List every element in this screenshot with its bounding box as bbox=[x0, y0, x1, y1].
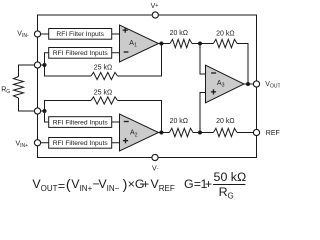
RFI filter box 4 bbox=[49, 138, 112, 149]
wire node FB2 bbox=[193, 132, 213, 134]
wire external RG to pin2 bbox=[19, 98, 35, 111]
junction dot A3 output bbox=[246, 82, 250, 86]
svg-text:+: + bbox=[205, 177, 212, 191]
RFI filter box 1 bbox=[49, 29, 112, 40]
wire node G2 up to 25k row 2 bbox=[45, 101, 92, 112]
svg-text:REF: REF bbox=[266, 130, 280, 137]
wire VIN+ to RFI box 4 bbox=[41, 142, 49, 144]
junction dot A2 output bbox=[159, 131, 163, 135]
svg-text:50 kΩ: 50 kΩ bbox=[214, 170, 247, 184]
svg-text:=: = bbox=[58, 179, 65, 193]
wire RFI box4 to A2 + input bbox=[112, 142, 120, 144]
svg-text:RFI Filtered Inputs: RFI Filtered Inputs bbox=[53, 119, 109, 126]
package outline box bbox=[38, 15, 257, 158]
svg-text:20 kΩ: 20 kΩ bbox=[170, 30, 188, 37]
RFI filter box 3 bbox=[49, 117, 112, 128]
terminal V+ bbox=[152, 12, 158, 18]
junction dot node FB1 bbox=[198, 42, 202, 46]
svg-text:25 kΩ: 25 kΩ bbox=[94, 90, 112, 97]
wire 20k (4) to REF terminal bbox=[237, 132, 254, 134]
svg-text:G: G bbox=[184, 177, 194, 191]
op-amp A3 bbox=[206, 65, 245, 103]
formula VOUT equation bbox=[32, 177, 174, 193]
terminal REF bbox=[253, 129, 259, 135]
terminal VIN+ bbox=[34, 140, 40, 146]
svg-text:20 kΩ: 20 kΩ bbox=[216, 30, 234, 37]
op-amp A1 bbox=[120, 25, 159, 62]
formula gain equation bbox=[184, 170, 246, 201]
svg-text:VIN-: VIN- bbox=[17, 30, 29, 39]
wire node FB1 bbox=[192, 43, 213, 45]
wire RG pin1 to external RG bbox=[19, 65, 35, 77]
wire RFI box2 left hook to node G1 bbox=[45, 53, 49, 65]
svg-text:20 kΩ: 20 kΩ bbox=[216, 118, 234, 125]
junction dot node FB2 bbox=[198, 131, 202, 135]
svg-text:RG: RG bbox=[1, 87, 10, 96]
resistor 20k (3) bbox=[169, 128, 193, 136]
RFI filter box 2 bbox=[49, 48, 112, 59]
wire node FB1 down to A3 - input bbox=[200, 44, 206, 75]
svg-text:(: ( bbox=[66, 177, 71, 193]
wire VIN- to RFI box 1 bbox=[41, 33, 49, 35]
svg-text:VIN+: VIN+ bbox=[71, 177, 92, 193]
op-amp A2 bbox=[120, 114, 159, 151]
wire 20k (2) down to A3 output bbox=[237, 44, 248, 85]
terminal RG pin 1 bbox=[34, 62, 40, 68]
wire node G1 down to 25k row bbox=[45, 65, 92, 76]
wire RFI box2 to A1 - input bbox=[112, 52, 120, 54]
wire RFI box1 to A1 + input bbox=[112, 33, 120, 35]
wire A2 output row bbox=[159, 132, 170, 134]
svg-text:VIN−: VIN− bbox=[98, 177, 119, 193]
resistor 20k (1) bbox=[170, 39, 192, 47]
svg-text:VREF: VREF bbox=[151, 177, 175, 193]
resistor 25k R2 bbox=[91, 97, 118, 104]
wire 25k R1 to A1 output branch bbox=[118, 44, 162, 77]
junction dot node G1 bbox=[43, 63, 47, 67]
resistor 25k R1 bbox=[91, 72, 118, 79]
svg-text:RG: RG bbox=[219, 185, 234, 201]
wire RFI box3 to A2 - input bbox=[112, 121, 120, 123]
svg-text:VOUT: VOUT bbox=[32, 177, 57, 193]
svg-text:25 kΩ: 25 kΩ bbox=[94, 65, 112, 72]
svg-text:V-: V- bbox=[152, 166, 159, 173]
wire RG pin2 to node G2 bbox=[41, 110, 45, 112]
terminal VOUT bbox=[253, 81, 259, 87]
svg-text:V+: V+ bbox=[151, 3, 159, 10]
junction dot node G2 bbox=[43, 109, 47, 113]
wire RFI box3 left hook to node G2 bbox=[45, 111, 49, 122]
wire 25k R2 to A2 output branch bbox=[118, 101, 162, 133]
wire A3 output to VOUT bbox=[244, 83, 254, 85]
svg-text:RFI Filter Inputs: RFI Filter Inputs bbox=[56, 31, 104, 38]
terminal VIN- bbox=[34, 31, 40, 37]
svg-text:VIN+: VIN+ bbox=[16, 140, 29, 149]
svg-text:RFI Filtered Inputs: RFI Filtered Inputs bbox=[53, 50, 109, 57]
svg-text:VOUT: VOUT bbox=[265, 81, 280, 90]
svg-text:20 kΩ: 20 kΩ bbox=[170, 118, 188, 125]
terminal RG pin 2 bbox=[34, 108, 40, 114]
terminal V- bbox=[152, 154, 158, 160]
resistor 20k (2) bbox=[213, 39, 237, 47]
junction dot A1 output bbox=[159, 42, 163, 46]
svg-text:RFI Filtered Inputs: RFI Filtered Inputs bbox=[53, 140, 109, 147]
wire RG pin1 to node G1 bbox=[41, 64, 45, 66]
wire A1 output row bbox=[159, 43, 171, 45]
resistor 20k (4) bbox=[213, 128, 237, 136]
wire node FB2 up to A3 + input bbox=[200, 93, 206, 133]
svg-text:+: + bbox=[142, 177, 149, 191]
resistor RG external bbox=[14, 77, 24, 99]
